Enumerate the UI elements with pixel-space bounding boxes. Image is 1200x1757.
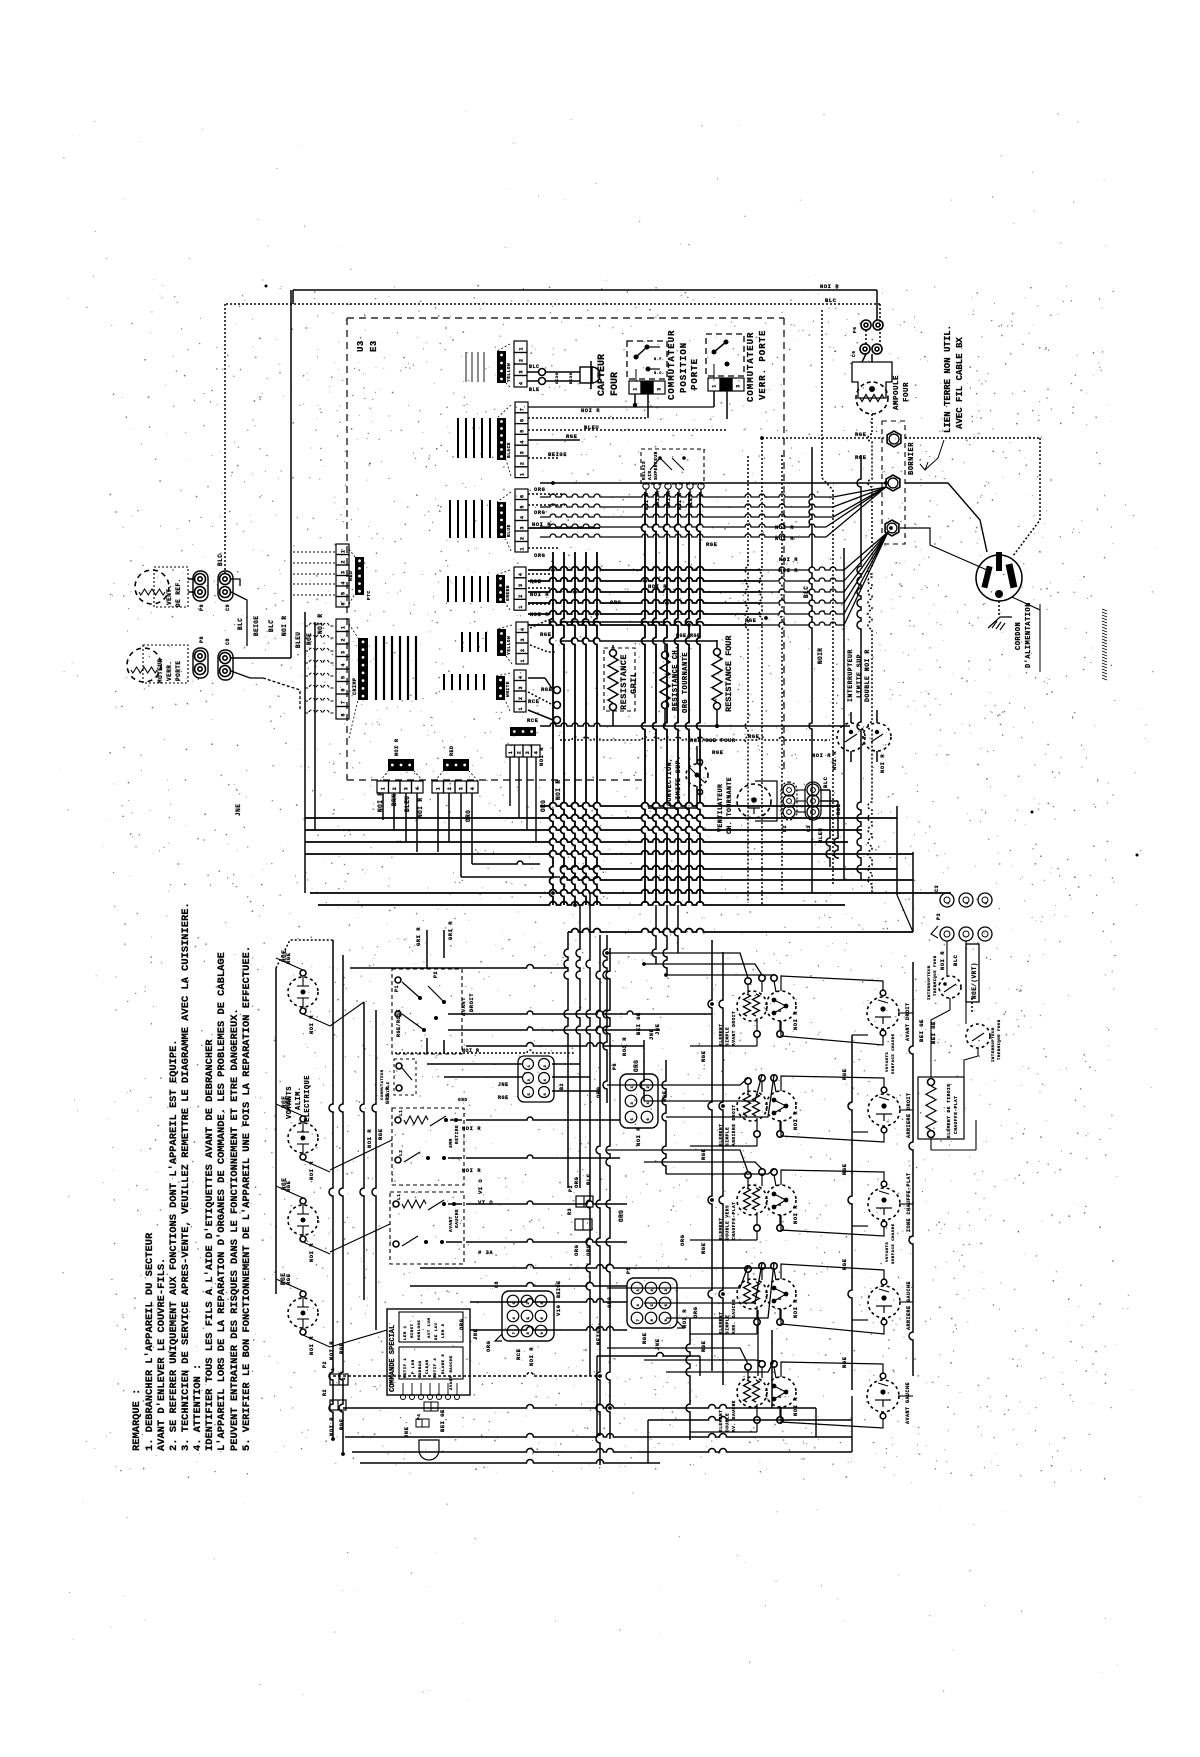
bottom small strip inside board: [506, 745, 515, 757]
rge feeds: [276, 940, 333, 968]
svg-text:AVANT: AVANT: [448, 1216, 454, 1232]
svg-text:2: 2: [966, 901, 970, 904]
svg-text:ORG TOURNANTE: ORG TOURNANTE: [682, 652, 690, 713]
svg-text:NOI R: NOI R: [879, 754, 886, 773]
svg-text:C8: C8: [225, 638, 231, 645]
dotted mid line: [560, 737, 830, 740]
svg-text:ARR. GAUCHE: ARR. GAUCHE: [731, 1299, 737, 1334]
voyant lamp 4: [288, 1298, 318, 1328]
svg-text:# 3A: # 3A: [478, 1249, 493, 1256]
connector P8 grid 2x3: [620, 1074, 658, 1128]
svg-text:GRD: GRD: [458, 1097, 468, 1103]
connector grid C2 6pin: [518, 1056, 554, 1102]
svg-text:FOUR: FOUR: [610, 372, 621, 396]
svg-text:7: 7: [513, 1331, 517, 1334]
svg-text:C9: C9: [225, 604, 231, 611]
element surface ELEMENT: [737, 1185, 767, 1215]
crimp signal names: [375, 636, 377, 700]
buzzer beige: [419, 1440, 439, 1460]
svg-text:NOI R: NOI R: [538, 747, 545, 766]
svg-text:NOI R: NOI R: [792, 1299, 799, 1318]
svg-text:N.F.: N.F.: [654, 358, 664, 362]
svg-text:2: 2: [647, 1085, 651, 1088]
svg-text:VI O: VI O: [477, 1179, 484, 1194]
svg-text:OC3O: OC3O: [556, 372, 560, 384]
svg-text:3: 3: [403, 787, 409, 791]
svg-text:2: 2: [447, 787, 453, 791]
svg-text:NOIR: NOIR: [817, 648, 824, 664]
svg-text:1: 1: [518, 707, 524, 711]
bottom long rails: [345, 1434, 852, 1438]
svg-text:AVEC FIL CABLE BX: AVEC FIL CABLE BX: [955, 337, 965, 429]
svg-text:SURFACE CHAUDE: SURFACE CHAUDE: [892, 1033, 896, 1074]
resistance chaleur tournante: [662, 652, 669, 659]
svg-text:2: 2: [518, 594, 524, 598]
element surface ELEMENT: [737, 1091, 767, 1121]
tiroir wires: [946, 941, 948, 976]
svg-text:JNE: JNE: [235, 804, 242, 816]
svg-text:RED: RED: [348, 570, 354, 581]
svg-text:BLEU: BLEU: [404, 796, 411, 812]
limiteur AVANT DROIT: [867, 997, 899, 1029]
svg-text:RGE/RGE: RGE/RGE: [676, 633, 701, 639]
orange bus from P2R3: [420, 1265, 772, 1268]
ampoule return wires: [868, 414, 872, 893]
capteur four sensor: [527, 371, 538, 373]
limiteur ZONE CHAUFFE-PLAT: [868, 1188, 900, 1220]
svg-text:4: 4: [519, 381, 525, 385]
svg-text:GRI R: GRI R: [385, 1086, 391, 1104]
bx cable hatched line: [1102, 609, 1107, 611]
svg-text:3: 3: [736, 384, 742, 388]
svg-text:ARRIERE DROIT: ARRIERE DROIT: [906, 1092, 912, 1138]
svg-text:3: 3: [518, 686, 524, 690]
svg-text:6: 6: [541, 1316, 545, 1319]
switch outputs to right: [466, 1117, 620, 1120]
svg-text:SUPERIEUR: SUPERIEUR: [653, 451, 659, 480]
svg-text:4MM: 4MM: [448, 1138, 454, 1148]
svg-text:RGE: RGE: [377, 1128, 384, 1140]
bornier wires: [762, 437, 886, 439]
relay contact stubs: [645, 489, 647, 497]
svg-text:P LUM: P LUM: [412, 1359, 416, 1374]
svg-text:6: 6: [520, 494, 526, 498]
element top feed wires: [607, 953, 748, 978]
svg-text:RGE: RGE: [706, 541, 718, 548]
svg-text:2. SE REFERER UNIQUEMENT AUX: 2. SE REFERER UNIQUEMENT AUX FONCTIONS D…: [168, 1039, 180, 1451]
svg-text:RGE: RGE: [281, 1096, 288, 1108]
svg-text:4: 4: [518, 573, 524, 577]
svg-text:P6: P6: [852, 327, 858, 333]
svg-text:NOI R: NOI R: [792, 1011, 799, 1030]
resistance gril: [604, 648, 635, 711]
svg-text:RGE: RGE: [566, 433, 578, 440]
wires crimp strip left with bumps: [305, 623, 336, 626]
bus: horizontal bundle mid: [528, 567, 762, 571]
svg-text:JNE: JNE: [498, 1082, 509, 1088]
relay air superieur: [641, 449, 704, 484]
svg-text:REMARQUE :: REMARQUE :: [131, 1389, 143, 1451]
svg-text:NOI R: NOI R: [792, 1205, 799, 1224]
svg-text:9: 9: [665, 1318, 669, 1321]
connector P2 R3 two-pin pairs: [576, 1196, 593, 1207]
svg-text:CLEAN: CLEAN: [426, 1359, 430, 1374]
wire vent motor: [224, 304, 226, 573]
svg-text:DOUBLE VERS: DOUBLE VERS: [725, 1205, 731, 1240]
svg-text:RCE: RCE: [528, 698, 540, 705]
svg-text:BLACK: BLACK: [506, 442, 512, 458]
svg-text:1: 1: [528, 1064, 532, 1067]
wires from blue strip: [528, 493, 565, 495]
svg-text:NOI R: NOI R: [328, 1417, 335, 1436]
svg-text:ORG: ORG: [679, 1234, 686, 1246]
svg-text:BLC: BLC: [825, 297, 837, 304]
svg-text:NOI R: NOI R: [812, 752, 831, 759]
connector CRIMP strip: [336, 619, 349, 632]
svg-text:P2: P2: [782, 825, 788, 832]
connector P2 two-pin: [330, 1374, 348, 1385]
svg-text:RGE: RGE: [712, 749, 724, 756]
svg-text:RGE: RGE: [338, 1418, 345, 1430]
svg-text:1: 1: [637, 1288, 641, 1291]
svg-text:POSITION: POSITION: [679, 342, 689, 393]
svg-text:AIR: AIR: [647, 470, 653, 480]
svg-text:2: 2: [392, 787, 398, 791]
bus: long rails upper-mid: [540, 803, 838, 807]
svg-text:2: 2: [518, 696, 524, 700]
svg-text:P3: P3: [936, 913, 942, 920]
connector C8 grid 3x3: [502, 1291, 554, 1341]
svg-text:P2: P2: [433, 971, 439, 978]
svg-text:NOI R: NOI R: [831, 751, 838, 770]
svg-text:6: 6: [647, 1117, 651, 1120]
connector C8 lock motor: [218, 650, 233, 680]
svg-text:L1: L1: [396, 1194, 402, 1200]
svg-text:NOI R: NOI R: [792, 1397, 799, 1416]
svg-text:RGE: RGE: [841, 1258, 848, 1270]
svg-text:7: 7: [637, 1318, 641, 1321]
svg-text:RGE: RGE: [700, 1148, 707, 1160]
svg-text:6: 6: [665, 1303, 669, 1306]
svg-text:BEIGE: BEIGE: [548, 451, 567, 458]
svg-text:DE LAV: DE LAV: [435, 1322, 439, 1340]
svg-text:4: 4: [341, 581, 347, 585]
resistance four: [714, 649, 721, 656]
svg-text:4. ATTENTION :: 4. ATTENTION :: [192, 1364, 204, 1451]
svg-text:2: 2: [516, 751, 522, 755]
svg-text:GAUCHE: GAUCHE: [454, 1209, 460, 1228]
svg-text:SURFACE CHAUDE: SURFACE CHAUDE: [892, 1223, 896, 1264]
svg-text:1: 1: [435, 787, 441, 791]
svg-text:3: 3: [520, 638, 526, 642]
svg-text:RGE: RGE: [641, 1332, 648, 1344]
svg-text:3: 3: [520, 526, 526, 530]
svg-text:PTC: PTC: [366, 590, 372, 600]
svg-text:AVT LUM: AVT LUM: [428, 1318, 432, 1338]
svg-text:5: 5: [779, 1297, 783, 1300]
svg-text:2: 2: [519, 358, 525, 362]
limiteur ARRIERE DROIT: [868, 1094, 900, 1126]
svg-text:RETIRE: RETIRE: [454, 1125, 460, 1144]
svg-text:ZONE CHAUFFE-PLAT: ZONE CHAUFFE-PLAT: [906, 1172, 912, 1232]
svg-text:ELECTRIQUE: ELECTRIQUE: [304, 1075, 312, 1122]
connector C3 3pin: [940, 893, 954, 907]
svg-text:NOI R: NOI R: [581, 407, 600, 414]
speck: [265, 285, 268, 288]
svg-text:VOYANTS: VOYANTS: [886, 1052, 890, 1072]
board connector strip P5 yellow2: [516, 622, 528, 633]
svg-text:5: 5: [779, 1395, 783, 1398]
svg-text:ARRIERE GAUCHE: ARRIERE GAUCHE: [906, 1281, 912, 1330]
board connector strip P3 blue: [515, 489, 528, 500]
svg-text:RGE/ROSE: RGE/ROSE: [396, 1009, 402, 1037]
voyant wiring: [275, 968, 277, 1294]
svg-text:1: 1: [508, 751, 514, 755]
wires red strip to left: [293, 551, 336, 553]
svg-text:BLC: BLC: [529, 364, 540, 370]
svg-text:4: 4: [544, 1078, 548, 1081]
commande pins: [401, 1395, 406, 1400]
svg-text:3: 3: [525, 751, 531, 755]
svg-text:4: 4: [637, 1303, 641, 1306]
element-limiter wires: [781, 976, 883, 991]
svg-text:9: 9: [541, 1331, 545, 1334]
svg-text:RGE: RGE: [540, 631, 552, 638]
svg-text:BLE: BLE: [529, 387, 540, 393]
svg-text:NOI R: NOI R: [635, 1127, 642, 1146]
svg-text:VERR. PORTE: VERR. PORTE: [758, 330, 768, 400]
wires from bottom connectors: [382, 793, 384, 820]
svg-text:ORG: ORG: [534, 509, 546, 516]
svg-text:ORG: ORG: [573, 1244, 580, 1256]
svg-text:V10: V10: [555, 1305, 562, 1316]
svg-text:RGE: RGE: [841, 1356, 848, 1368]
svg-text:MINUT: MINUT: [411, 1323, 415, 1338]
bornier nut 3: [885, 520, 899, 536]
ground symbol: [988, 617, 1012, 628]
svg-text:NOI R: NOI R: [792, 1111, 799, 1130]
svg-text:NOI R: NOI R: [528, 1347, 535, 1366]
svg-text:BLADE 8: BLADE 8: [442, 1354, 446, 1374]
svg-text:BORNIER: BORNIER: [908, 442, 916, 475]
left long verticals to bottom half: [329, 940, 333, 1439]
svg-text:3: 3: [657, 387, 663, 391]
svg-text:5: 5: [779, 1109, 783, 1112]
svg-text:2: 2: [520, 648, 526, 652]
svg-text:YELLOW: YELLOW: [506, 636, 512, 655]
svg-text:R2: R2: [322, 1389, 328, 1396]
svg-text:4: 4: [513, 1316, 517, 1319]
svg-text:5: 5: [520, 505, 526, 509]
svg-text:RGE: RGE: [841, 1068, 848, 1080]
svg-text:AV. GAUCHE: AV. GAUCHE: [731, 1400, 737, 1432]
plug wires: [905, 483, 987, 552]
svg-text:DOUBLE: DOUBLE: [725, 1413, 731, 1432]
svg-text:RGE: RGE: [855, 431, 867, 438]
svg-text:INTERRUPTEUR: INTERRUPTEUR: [847, 649, 854, 702]
svg-text:BEI GE: BEI GE: [918, 1019, 925, 1042]
control board U3 E3 dashed box: [347, 317, 784, 319]
svg-text:SIMPLE: SIMPLE: [725, 1127, 731, 1146]
svg-text:C6: C6: [851, 351, 857, 357]
svg-text:6: 6: [341, 602, 347, 606]
svg-text:ORG: ORG: [692, 1306, 699, 1318]
svg-text:VENT.: VENT.: [166, 584, 173, 605]
svg-text:PEUVENT ENTRAINER DES RISQUES: PEUVENT ENTRAINER DES RISQUES DANS LE FO…: [229, 1008, 241, 1451]
voyant lamp 1: [288, 977, 318, 1007]
svg-text:R3: R3: [567, 1208, 573, 1215]
svg-text:BLC: BLC: [217, 554, 224, 566]
svg-text:ORG: ORG: [458, 1318, 465, 1330]
svg-text:1: 1: [520, 472, 526, 476]
board bottom connector B: [432, 781, 444, 793]
svg-text:ORG: ORG: [633, 1060, 640, 1072]
svg-text:5: 5: [520, 429, 526, 433]
fan connector C3 column: [805, 782, 821, 820]
svg-text:1: 1: [380, 787, 386, 791]
svg-text:4: 4: [520, 627, 526, 631]
svg-text:P6: P6: [612, 1063, 618, 1070]
svg-text:3: 3: [631, 1101, 635, 1104]
svg-text:C8: C8: [494, 1281, 500, 1288]
svg-text:BLC: BLC: [237, 618, 244, 630]
svg-text:AMPOULE: AMPOULE: [893, 375, 901, 410]
svg-text:BEIGE: BEIGE: [556, 1280, 562, 1298]
svg-text:THERMIQUE FOUR: THERMIQUE FOUR: [998, 1019, 1002, 1060]
svg-text:3: 3: [665, 1288, 669, 1291]
svg-text:VI O: VI O: [478, 1199, 493, 1206]
svg-text:RCE: RCE: [527, 717, 539, 724]
svg-text:RGE/(VRT): RGE/(VRT): [971, 962, 978, 999]
lamp connector pairs: [861, 320, 871, 330]
junction dots: [715, 724, 719, 728]
svg-text:NOI R: NOI R: [328, 1341, 335, 1360]
svg-text:ORG: ORG: [534, 552, 546, 559]
svg-text:ORG: ORG: [573, 1176, 580, 1188]
svg-text:MOTIF 4: MOTIF 4: [434, 1358, 438, 1378]
svg-text:6: 6: [544, 1092, 548, 1095]
svg-text:GRIL: GRIL: [629, 672, 639, 694]
svg-text:2: 2: [341, 638, 347, 642]
svg-text:BLC: BLC: [822, 776, 829, 788]
svg-text:NOI R: NOI R: [366, 1129, 373, 1148]
svg-text:2: 2: [341, 1377, 347, 1380]
svg-text:ORG: ORG: [534, 486, 546, 493]
ampoule four oven lamp: [852, 362, 892, 398]
svg-text:RGE: RGE: [700, 1340, 707, 1352]
svg-text:LEM 1: LEM 1: [404, 1325, 408, 1340]
switch1 outputs: [426, 1038, 428, 1054]
svg-text:RESISTANCE FOUR: RESISTANCE FOUR: [724, 635, 734, 712]
resistor top links: [612, 645, 614, 648]
svg-text:4: 4: [341, 663, 347, 667]
svg-text:VERR.: VERR.: [166, 660, 173, 681]
element surface ELEMENT: [737, 1279, 767, 1309]
svg-text:PORTE: PORTE: [690, 358, 700, 390]
svg-text:1: 1: [947, 901, 951, 904]
interrupteur limite sup double: [837, 723, 865, 751]
svg-text:3. TECHNICIEN DE SERVICE APRE: 3. TECHNICIEN DE SERVICE APRES-VENTE, VE…: [180, 902, 192, 1451]
svg-text:CHAUFFE-PLAT: CHAUFFE-PLAT: [731, 1202, 737, 1240]
svg-text:BLUE: BLUE: [506, 524, 512, 537]
svg-text:RELAIS: RELAIS: [641, 461, 647, 480]
thermo switch B: [966, 1024, 990, 1048]
connector R2 two-pin: [330, 1400, 346, 1410]
svg-text:MOTEUR: MOTEUR: [157, 658, 164, 683]
svg-text:RGE: RGE: [498, 1095, 509, 1101]
svg-text:BLEU: BLEU: [584, 424, 599, 431]
svg-text:DROIT: DROIT: [468, 993, 475, 1012]
svg-text:P1: P1: [394, 985, 400, 992]
svg-text:5. VERIFIER LE BON FONCTIONNE: 5. VERIFIER LE BON FONCTIONNEMENT DE L'A…: [241, 946, 253, 1451]
svg-text:U3: U3: [356, 340, 366, 352]
svg-text:RGE: RGE: [745, 617, 757, 624]
svg-text:DE REF.: DE REF.: [175, 578, 182, 607]
element-limiter wires: [781, 1362, 883, 1377]
svg-text:CAPTEUR: CAPTEUR: [597, 354, 608, 396]
fan connector out wires: [826, 790, 830, 867]
svg-text:VENTILATEUR: VENTILATEUR: [717, 784, 724, 832]
svg-text:4: 4: [520, 515, 526, 519]
bus: vertical bundle V1: [550, 552, 554, 905]
motor: moteur verrouillage porte: [127, 648, 161, 682]
svg-text:5: 5: [779, 1203, 783, 1206]
svg-text:RGE: RGE: [841, 1163, 848, 1175]
svg-text:AVANT: AVANT: [460, 997, 467, 1016]
svg-text:NOI R: NOI R: [281, 615, 288, 636]
svg-text:JNE: JNE: [654, 1023, 661, 1035]
svg-text:BEI GE: BEI GE: [439, 1409, 446, 1432]
board connector strip P1 yellow: [514, 341, 527, 353]
ground wire and symbol: [998, 601, 1000, 617]
element feed verticals: [708, 940, 712, 1371]
left risers to switches: [360, 1002, 364, 1300]
infinite switch box 2: [392, 1108, 464, 1185]
svg-text:N.O.: N.O.: [654, 372, 664, 376]
svg-text:ELEMENT: ELEMENT: [718, 1410, 724, 1432]
svg-text:ORG: ORG: [540, 800, 547, 812]
element surface ELEMENT: [737, 1377, 767, 1407]
cordon alimentation plug: [976, 555, 1022, 601]
svg-text:3: 3: [518, 583, 524, 587]
wire: top BLC line: [226, 303, 880, 305]
svg-text:NOI R: NOI R: [462, 1125, 481, 1132]
svg-text:B2: B2: [559, 1083, 565, 1090]
svg-text:1: 1: [341, 625, 347, 629]
svg-text:GREEN: GREEN: [505, 585, 511, 601]
connector P5 grid 3x3: [627, 1278, 677, 1328]
svg-text:3: 3: [458, 787, 464, 791]
svg-text:1: 1: [633, 387, 639, 391]
commutateur position porte: [627, 341, 667, 379]
svg-text:3: 3: [341, 650, 347, 654]
svg-text:C3: C3: [934, 885, 940, 892]
wires lock motor: [290, 290, 292, 658]
voyant lamp 3: [288, 1205, 318, 1235]
svg-text:CORDON: CORDON: [1015, 622, 1023, 650]
svg-text:RGE: RGE: [748, 733, 760, 740]
board connector strip P6 white: [514, 670, 526, 681]
right mid verticals: [896, 806, 898, 895]
element-limiter wires: [781, 1076, 884, 1091]
svg-text:5: 5: [341, 675, 347, 679]
svg-text:2: 2: [520, 536, 526, 540]
svg-text:RED: RED: [449, 745, 455, 756]
connector RED strip: [336, 544, 349, 555]
connector P9 vent motor: [193, 571, 208, 601]
svg-text:4: 4: [520, 440, 526, 444]
svg-text:5: 5: [779, 1009, 783, 1012]
